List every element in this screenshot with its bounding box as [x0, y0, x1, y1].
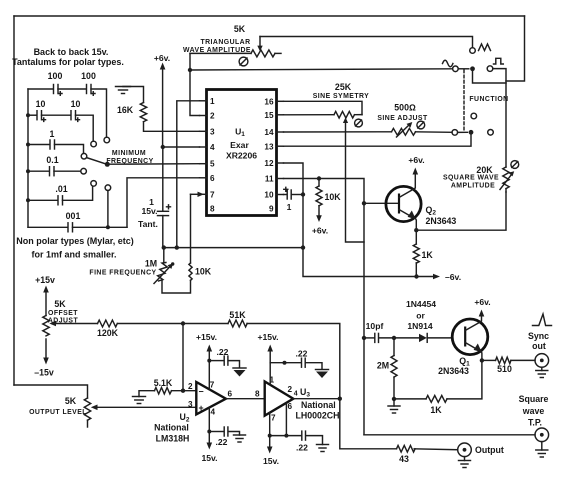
wire: U3 output [293, 398, 340, 400]
svg-text:16: 16 [264, 97, 274, 106]
svg-text:3: 3 [188, 400, 193, 409]
capacitor 10 (left) [28, 99, 46, 121]
svg-text:5K: 5K [65, 396, 77, 406]
svg-text:1N914: 1N914 [407, 321, 433, 331]
pin 2 stub [200, 115, 207, 117]
resistor 25K (pot body) [284, 82, 370, 118]
svg-text:10K: 10K [195, 267, 212, 277]
node: emitter/20K junction [414, 228, 418, 232]
wire: triangle rail [260, 37, 473, 48]
node: bus junction 1-row [26, 143, 30, 147]
node: sine rail tap [188, 68, 192, 72]
svg-text:5.1K: 5.1K [154, 378, 173, 388]
contact: 100 position [104, 137, 110, 143]
capacitor .01 [28, 184, 68, 205]
pin 12 stub [277, 162, 284, 164]
node: function pole (top) [470, 66, 475, 71]
power: -15v arrow (U2) [201, 432, 217, 464]
svg-text:6: 6 [288, 402, 293, 411]
transistor Q2 2N3643 [386, 186, 457, 226]
svg-text:Tant.: Tant. [138, 219, 158, 229]
power: +6v arrow (Q1 collector) [474, 297, 490, 322]
svg-text:+6v.: +6v. [312, 226, 328, 236]
wire: pin 12 drop [284, 163, 417, 277]
svg-text:2: 2 [210, 112, 215, 121]
wire: 43 to output connector [414, 448, 458, 451]
pin 16 stub [277, 100, 284, 102]
wire: U3 output drop [340, 399, 397, 449]
svg-text:7: 7 [210, 381, 215, 390]
label: U1 Exar XR2206 [226, 127, 257, 161]
svg-text:9: 9 [269, 205, 274, 214]
svg-text:FUNCTION: FUNCTION [469, 96, 508, 103]
svg-text:.22: .22 [217, 347, 229, 357]
svg-text:1K: 1K [430, 405, 442, 415]
capacitor 10 (right) [42, 99, 81, 121]
node: rail-pin1 junction [175, 245, 179, 249]
svg-text:5: 5 [210, 160, 215, 169]
svg-text:51K: 51K [229, 310, 246, 320]
svg-text:Tantalums for polar types.: Tantalums for polar types. [12, 57, 124, 67]
node: 2M/1K/ground junction [392, 397, 396, 401]
wire: U2 out to U3 in [226, 398, 265, 400]
svg-text:+6v.: +6v. [408, 155, 424, 165]
node: rotary pole [105, 162, 110, 167]
svg-text:Sync: Sync [528, 331, 549, 341]
trimmer symbol: 5K [239, 57, 248, 66]
svg-text:Non polar types (Mylar, etc): Non polar types (Mylar, etc) [16, 236, 134, 246]
ground: U3 bottom bypass [317, 445, 329, 452]
contact: square (top) [487, 66, 493, 72]
capacitor 1uF (pin 10) [284, 187, 304, 212]
svg-text:13: 13 [264, 142, 274, 151]
contact: .001 position [105, 185, 111, 191]
svg-text:15v.: 15v. [263, 456, 279, 466]
potentiometer 500ohm [284, 103, 453, 138]
op-amp U3 body [265, 382, 294, 416]
glyph: triangle wave [479, 44, 491, 51]
node: -6v / 1K junction [414, 274, 418, 278]
capacitor .22 (U3 top) [270, 349, 322, 369]
node: U2 neg supply tee [207, 430, 211, 434]
resistor 43 [397, 446, 416, 465]
node: bus junction 10-row [26, 113, 30, 117]
wire: right border drop to function switch [506, 16, 525, 81]
node: tant junction pin10 [301, 192, 305, 196]
resistor 51K [228, 310, 247, 327]
capacitor 1uF 15v tant (pin 4 leg) [138, 147, 170, 248]
wire: .001 contact drop [107, 191, 109, 228]
potentiometer 5K offset adjust [43, 299, 98, 336]
svg-text:2N3643: 2N3643 [426, 216, 457, 226]
wire: feedback to U3 output [247, 324, 340, 399]
ground: 5.1K [133, 391, 155, 404]
wire: Q2 base [364, 202, 398, 204]
svg-text:11: 11 [265, 175, 274, 184]
svg-text:Output: Output [475, 445, 504, 455]
svg-text:510: 510 [497, 364, 512, 374]
wire: feedback drop to 5.1K node [182, 324, 184, 391]
wire: pin 7 with arrow [191, 192, 205, 263]
wire: Q2 emitter drop [415, 219, 418, 245]
connector: square wave T.P. [535, 428, 549, 442]
wiper: 25K to square bus [343, 117, 364, 242]
resistor 10K pullup [312, 179, 341, 236]
capacitor .001 [28, 211, 80, 232]
svg-text:4: 4 [210, 143, 215, 152]
node: U2 supply tee [207, 359, 211, 363]
connector: output [458, 443, 472, 457]
svg-text:.01: .01 [55, 184, 67, 194]
wire: pin 4 stub [163, 146, 200, 148]
contact: .01 position [91, 181, 97, 187]
svg-text:1N4454: 1N4454 [406, 299, 436, 309]
op-amp U2 body [196, 382, 226, 414]
svg-text:T.P.: T.P. [528, 418, 542, 428]
pin 10 stub [277, 194, 284, 196]
node: rail-1M junction [162, 245, 166, 249]
svg-text:1: 1 [210, 97, 215, 106]
svg-text:WAVE AMPLITUDE: WAVE AMPLITUDE [183, 47, 251, 54]
svg-text:500Ω: 500Ω [394, 103, 416, 113]
pin 15 stub [277, 114, 284, 116]
wire: 0.1-row to switch contact [54, 170, 81, 172]
svg-text:SQUARE WAVE: SQUARE WAVE [443, 175, 499, 182]
svg-text:100: 100 [48, 71, 63, 81]
node: diode/2M junction [392, 336, 396, 340]
svg-text:8: 8 [255, 390, 260, 399]
svg-text:FINE FREQUENCY: FINE FREQUENCY [89, 270, 156, 277]
pin 7 stub [200, 193, 207, 195]
wire: fine-frequency rail [164, 247, 303, 249]
node: U3 output junction [338, 397, 342, 401]
wire: pole to output bus [473, 71, 507, 83]
svg-text:4: 4 [294, 391, 298, 398]
trimmer symbol: 20K [511, 161, 519, 169]
svg-text:10: 10 [36, 99, 46, 109]
contact: triangle (top) [470, 48, 476, 54]
switch arm: minimum frequency rotary [87, 158, 106, 164]
svg-text:5K: 5K [54, 299, 66, 309]
svg-text:out: out [532, 341, 546, 351]
switch arm: top section [458, 68, 469, 70]
svg-text:12: 12 [264, 159, 274, 168]
svg-text:or: or [416, 311, 425, 321]
potentiometer 1M fine frequency [89, 248, 190, 293]
power: +6v arrow (pin 4) [154, 53, 170, 147]
pin 5 stub [200, 163, 207, 165]
svg-text:wave: wave [522, 406, 545, 416]
svg-text:−: − [199, 387, 204, 397]
svg-text:1M: 1M [145, 259, 157, 269]
power: +15v arrow (U2) [196, 332, 217, 361]
wire: square bus to T.P. [364, 434, 535, 436]
wire: pin 6 to .001 row [127, 178, 200, 228]
svg-text:10K: 10K [325, 192, 342, 202]
wire: square contact to 20K bus [493, 69, 506, 167]
wire: U3 pin7 drop [269, 413, 271, 436]
capacitor 100 (right) [58, 71, 96, 95]
contact: 10 position [91, 141, 97, 147]
svg-text:20K: 20K [476, 165, 493, 175]
pin 13 stub [277, 145, 284, 147]
wire: 100-row to switch contact [91, 89, 107, 137]
wire: output level wiper to pin 3 [96, 406, 196, 408]
op-amp U1 body [207, 90, 277, 216]
svg-text:001: 001 [66, 211, 81, 221]
svg-text:16K: 16K [117, 105, 134, 115]
svg-text:120K: 120K [97, 328, 119, 338]
svg-text:+15v.: +15v. [196, 332, 217, 342]
wire: U2 pin7 riser [208, 361, 210, 390]
power: -6v arrow [417, 272, 462, 282]
power: -15v arrow (U3) [263, 436, 279, 466]
label: square wave T.P. [519, 394, 549, 428]
potentiometer 20K [443, 165, 514, 192]
svg-text:14: 14 [264, 128, 274, 137]
contact: triangle (bottom) [471, 113, 477, 119]
wire: .01-row to switch contact [63, 186, 93, 200]
svg-text:Back to back 15v.: Back to back 15v. [34, 47, 109, 57]
connector: sync out [535, 354, 549, 368]
node: function pole (bottom) [469, 130, 474, 135]
capacitor .22 (U2 top) [209, 347, 239, 367]
contact: 1 position [81, 153, 87, 159]
svg-text:+6v.: +6v. [154, 53, 170, 63]
label: U2 National LM318H [154, 412, 190, 444]
resistor 1K (Q1 emitter) [394, 360, 482, 415]
potentiometer 5K output level [29, 396, 97, 427]
svg-text:100: 100 [81, 71, 96, 81]
capacitor .22 (U2 bottom) [209, 427, 239, 447]
pin 6 stub [200, 177, 207, 179]
node: .001 junction [106, 225, 110, 229]
node: pin 4 junction [161, 145, 165, 149]
wire: 120K to 51K [118, 323, 229, 325]
diode 1N4454 or 1N914 [394, 299, 452, 342]
node: U3 neg supply tees [268, 434, 272, 438]
wire: U3 pin1 riser [269, 363, 271, 385]
contact: 0.1 position [81, 168, 87, 174]
label: U3 National LH0002CH [296, 387, 340, 421]
svg-text:for 1mf and smaller.: for 1mf and smaller. [31, 250, 116, 260]
wire: rotary pole to pin 5 [110, 163, 200, 166]
resistor 510 [482, 357, 535, 374]
wire: pin 2 riser [190, 53, 200, 115]
svg-text:3: 3 [210, 128, 215, 137]
wire: pin 11 square bus [284, 179, 365, 435]
svg-text:TRIANGULAR: TRIANGULAR [200, 39, 250, 46]
wire: output-level pot feed [14, 385, 88, 398]
svg-text:1: 1 [287, 202, 292, 212]
wire: to pin 2 of U2 [172, 390, 197, 392]
contact: square (bottom) [488, 130, 494, 136]
contact: sine (top) [453, 66, 459, 72]
svg-text:XR2206: XR2206 [226, 151, 257, 161]
pin 1 stub [200, 100, 207, 102]
power: +15v arrow [35, 275, 55, 316]
glyph: sine wave [443, 60, 453, 67]
svg-text:2N3643: 2N3643 [438, 366, 469, 376]
wire: pin 16 loop [284, 101, 363, 114]
node: bus junction 0.1-row [26, 169, 30, 173]
svg-text:25K: 25K [335, 82, 352, 92]
ground: T.P. connector [536, 442, 548, 457]
svg-text:+15v: +15v [35, 275, 55, 285]
svg-text:–6v.: –6v. [445, 272, 461, 282]
svg-text:7: 7 [210, 191, 215, 200]
svg-text:10: 10 [71, 99, 81, 109]
pin 11 stub [277, 178, 284, 180]
node: bus junction .01-row [26, 198, 30, 202]
glyph: sync pulse [533, 314, 552, 326]
svg-text:2: 2 [188, 382, 193, 391]
svg-text:OUTPUT LEVEL: OUTPUT LEVEL [29, 409, 87, 416]
node: 10K pullup tap [317, 176, 321, 180]
svg-text:.22: .22 [216, 437, 228, 447]
resistor 16K [140, 103, 146, 122]
svg-text:AMPLITUDE: AMPLITUDE [451, 183, 495, 190]
power: +15v arrow (U3) [257, 332, 278, 363]
trimmer symbol: 25K [355, 119, 363, 127]
pin numbers left [210, 97, 215, 214]
ground: U2 top bypass [233, 368, 246, 377]
wire: 10-row to switch contact [76, 115, 94, 141]
svg-text:+6v.: +6v. [474, 297, 490, 307]
node: Q2 base tee [362, 201, 366, 205]
pin 14 stub [277, 131, 284, 133]
svg-text:MINIMUM: MINIMUM [112, 150, 146, 157]
svg-text:2: 2 [288, 385, 293, 394]
svg-text:SINE SYMETRY: SINE SYMETRY [313, 93, 369, 100]
svg-text:2M: 2M [377, 361, 389, 371]
label: sync out [528, 331, 549, 351]
ground: output connector [459, 457, 471, 468]
ground: U3 top bypass [316, 370, 329, 379]
capacitor 10pf [364, 321, 394, 342]
svg-text:4: 4 [211, 408, 216, 417]
svg-text:1K: 1K [422, 250, 434, 260]
potentiometer 5K triangular [183, 24, 281, 57]
wire: top output rail [14, 15, 525, 17]
ground: sync connector [536, 367, 548, 377]
svg-text:+: + [199, 403, 204, 413]
svg-text:–15v: –15v [34, 368, 54, 378]
wire: capacitor bank left bus [27, 89, 29, 227]
node: fine rail junction [301, 245, 305, 249]
resistor 2M [377, 338, 397, 399]
wire: .001-row to pin 6 drop [73, 226, 128, 228]
svg-text:8: 8 [210, 205, 215, 214]
transistor Q1 2N3643 [438, 319, 488, 376]
wire: pin 1 to fine-frequency rail [177, 101, 200, 248]
power: +6v arrow (Q2 collector) [408, 155, 424, 189]
svg-text:15: 15 [264, 111, 274, 120]
svg-text:.22: .22 [296, 443, 308, 453]
svg-text:OFFSET: OFFSET [48, 310, 78, 317]
svg-text:LM318H: LM318H [156, 434, 190, 444]
svg-text:6: 6 [210, 174, 215, 183]
pin 3 stub [200, 130, 207, 132]
svg-text:1: 1 [50, 129, 55, 139]
svg-text:5K: 5K [234, 24, 246, 34]
svg-text:Square: Square [519, 394, 549, 404]
pin 4 stub [200, 146, 207, 148]
wire: U2 pin4 drop [208, 408, 210, 432]
svg-text:National: National [154, 423, 189, 433]
resistor 1K (Q2 emitter) [413, 244, 433, 277]
svg-text:LH0002CH: LH0002CH [296, 411, 340, 421]
power: -15v arrow [34, 339, 54, 378]
wire: U3 pin5 drop [285, 403, 287, 436]
glyph: square wave [494, 58, 504, 64]
capacitor 1 [28, 129, 55, 149]
resistor 120K [97, 320, 119, 338]
svg-text:.22: .22 [296, 349, 308, 359]
trimmer symbol: 500ohm [417, 121, 425, 129]
ground: 16K top [116, 87, 144, 103]
node: feedback tap [181, 321, 185, 325]
svg-text:0.1: 0.1 [46, 155, 58, 165]
svg-text:ADJUST: ADJUST [48, 318, 79, 325]
svg-text:+15v.: +15v. [257, 332, 278, 342]
node: emitter/510 tee [480, 358, 484, 362]
svg-text:10: 10 [264, 191, 274, 200]
svg-text:National: National [301, 400, 336, 410]
resistor 5.1K [154, 378, 173, 394]
node: U2 inverting input [181, 389, 185, 393]
wire: 1-row to switch contact [55, 145, 84, 154]
wire: sine rail [190, 69, 453, 70]
capacitor .22 (U3 bottom) [270, 431, 323, 452]
capacitor 0.1 [28, 155, 59, 176]
svg-text:15v.: 15v. [141, 206, 157, 216]
dashed gang link [463, 70, 465, 131]
pin numbers right [264, 97, 274, 213]
node: 10pf tap [362, 336, 366, 340]
resistor 10K fine [189, 263, 212, 280]
svg-text:15v.: 15v. [201, 453, 217, 463]
wire: 20K bottom to Q2 emitter [416, 192, 506, 230]
capacitor 100 (left) [28, 71, 62, 95]
contact: sine (bottom) [452, 130, 458, 136]
svg-text:10pf: 10pf [366, 321, 384, 331]
wire: Q1 emitter drop [481, 352, 483, 361]
svg-text:43: 43 [399, 454, 409, 464]
svg-text:Exar: Exar [230, 140, 249, 150]
wire: bottom pole to pin 13 [284, 132, 472, 146]
switch arm: bottom section [458, 131, 468, 133]
ground: 2M leg [388, 399, 400, 413]
wire: left border bus [13, 16, 15, 385]
svg-text:6: 6 [228, 390, 233, 399]
wire: 16K to pin 3 [144, 122, 200, 132]
ground: U2 bottom bypass [234, 435, 246, 442]
svg-text:7: 7 [271, 414, 276, 423]
